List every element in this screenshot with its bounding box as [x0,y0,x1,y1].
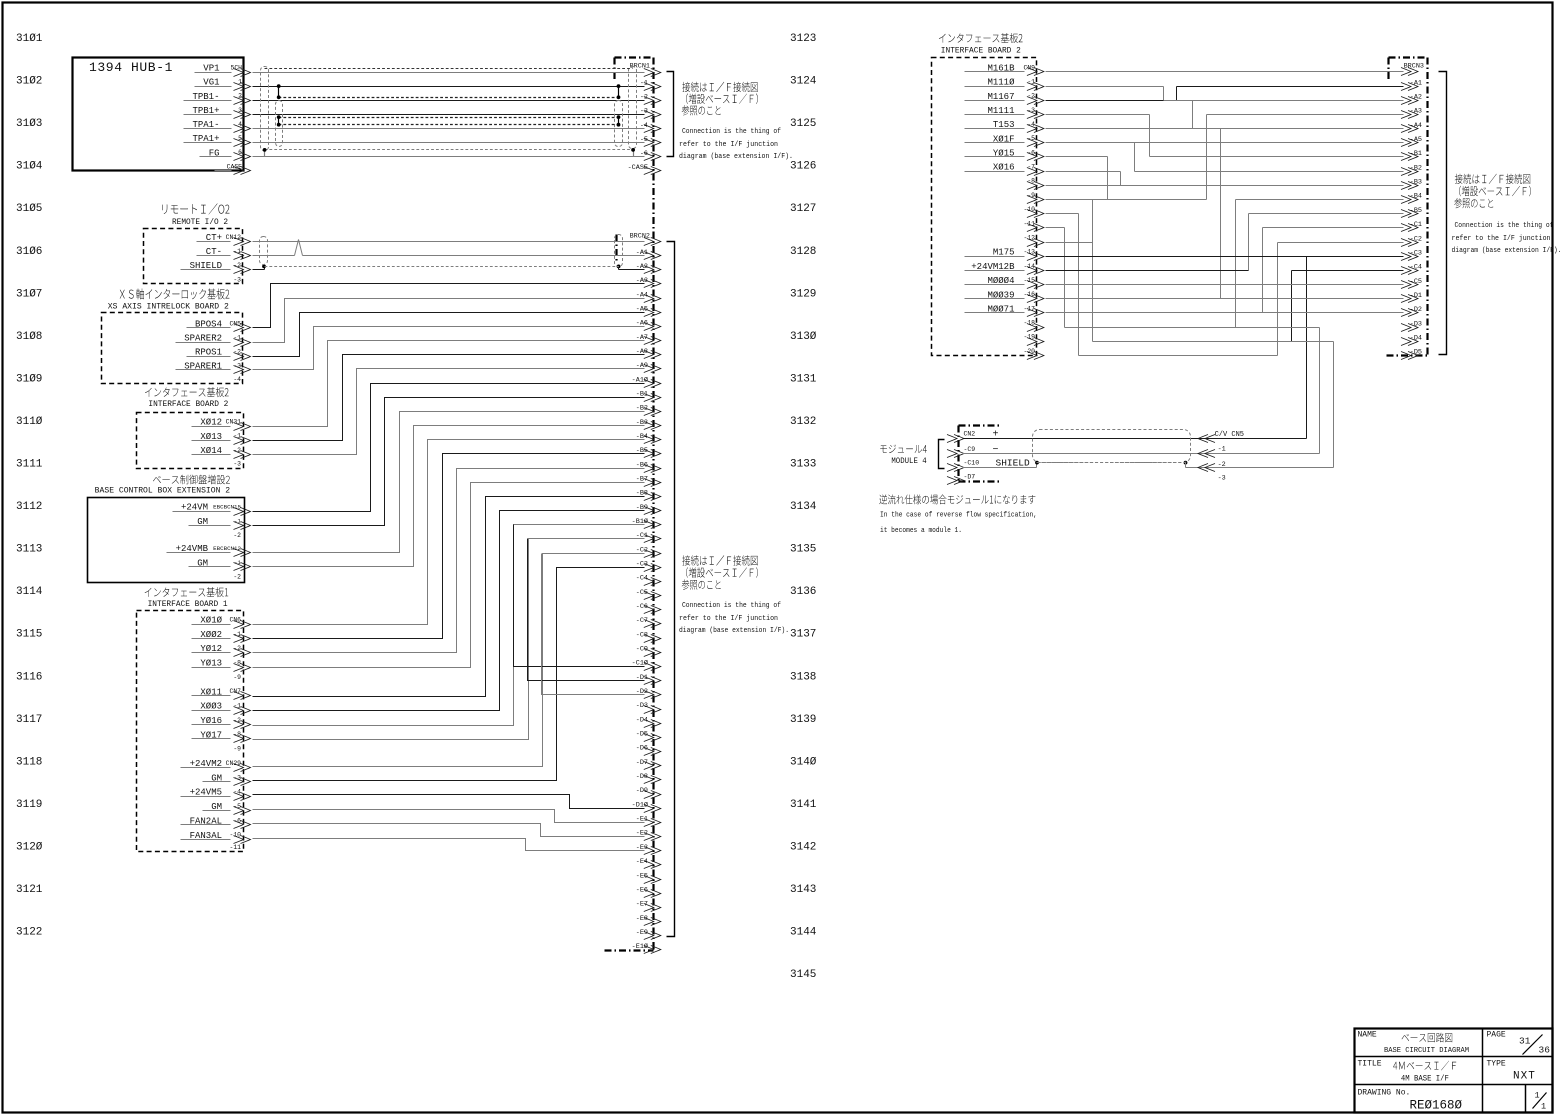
IF1 pin +24VM2 (CN29) [181,759,251,772]
wire X011 to BRCN2 -B8 [253,497,645,697]
crossing wire into -C2 [1278,242,1404,244]
BRCN2 pin -A3 [636,277,661,287]
svg-text:3119: 3119 [16,799,42,811]
IF2R pin M1167 [965,92,1044,105]
BRCN1 pin -6 [640,150,661,160]
wire loop C1-D1 [528,539,645,681]
svg-text:NXT: NXT [1513,1071,1536,1083]
svg-text:Connection is the thing of: Connection is the thing of [682,128,781,136]
svg-text:31Ø9: 31Ø9 [16,373,42,385]
BRCN3 pin -A2 [1401,93,1422,104]
wire SHIELD to BRCN2-A2 [253,265,645,270]
crossing wire +24VM12B stub [1046,270,1249,272]
wire X013 to BRCN2 -A8 [253,355,645,441]
svg-text:3141: 3141 [790,799,817,811]
IF2 pin X014 [192,446,251,459]
cable shield capsule left [261,67,269,151]
BRCN2 pin -E1 [636,816,661,827]
svg-text:312Ø: 312Ø [16,841,43,853]
BRCN2 pin -A10 [632,375,661,387]
shield wire FG pair [263,148,635,157]
title block outer [1355,1029,1553,1113]
svg-text:TITLE: TITLE [1358,1060,1382,1069]
IF1 pin Y013 (-8) [192,659,251,672]
cable shield capsule left 2 [276,101,283,147]
BRCN2 pin -B9 [636,504,661,515]
BCB pin GM (-1) [189,558,251,570]
wire +24VM2 to BRCN2 -C2 [253,554,645,767]
svg-text:-D8: -D8 [636,773,648,781]
svg-text:3134: 3134 [790,501,817,513]
BRCN3 pin -C2 [1401,235,1422,246]
svg-text:-D3: -D3 [1410,320,1422,328]
crossing vertical x1207 [1206,115,1208,200]
svg-text:-11: -11 [229,844,241,851]
svg-text:313Ø: 313Ø [790,331,817,343]
BRCN2 pin -C1 [636,532,661,542]
XS pin BPOS4 [187,319,251,331]
BRCN2 pin -C5 [636,589,661,600]
svg-text:-CASE: -CASE [628,164,648,172]
crossing wire Y015 stub [1046,156,1108,158]
crossing wire into -A3 [1207,114,1404,116]
svg-text:SHIELD: SHIELD [996,458,1031,469]
title jp title [1393,1061,1456,1071]
IF1 pin GM (-5) [203,802,251,814]
svg-text:-C2: -C2 [1410,235,1422,243]
BRCN1 pin top [644,69,661,77]
bcb2 jp title [153,475,230,485]
remote io2 jp title [162,203,229,214]
svg-text:-B1: -B1 [1410,150,1422,158]
BRCN2 pin -E5 [636,872,661,883]
svg-text:3133: 3133 [790,459,816,471]
BRCN2 pin -A7 [636,334,661,345]
svg-text:-C3: -C3 [1410,249,1422,257]
CN5 pin -3 [1198,464,1226,483]
svg-text:CN2: CN2 [964,431,976,438]
BRCN2 bracket [667,242,675,937]
BRCN2 pin -B8 [636,490,661,501]
BRCN3 pin -B5 [1401,207,1422,218]
title page numbers [1519,1035,1550,1056]
crossing wire M161B straight [1046,71,1404,73]
svg-text:3114: 3114 [16,586,43,598]
BRCN2 pin -A2 [636,263,661,274]
crossing wire pin11 stub [1046,227,1065,229]
IF2R pin -9 [1027,192,1044,204]
BRCN3 pin -D5 [1401,349,1422,360]
svg-text:-E4: -E4 [636,858,648,866]
crossing wire pin12 stub [1046,242,1093,244]
HUB pin VP1 (5CH) [195,64,251,77]
svg-text:3125: 3125 [790,118,816,130]
svg-text:314Ø: 314Ø [790,756,817,768]
wire +24VMB to BRCN2 -B2 [253,412,645,553]
HUB pin TPA1- (4) [184,120,251,132]
crossing wire into -C1 [1263,227,1404,229]
HUB pin FG (6) [200,148,251,160]
BRCN3 pin -B3 [1401,179,1422,190]
svg-text:−: − [993,445,999,456]
BRCN3 pin -A4 [1401,122,1422,133]
svg-text:36: 36 [1539,1045,1551,1056]
BRCN2 pin -C7 [636,617,661,627]
svg-text:3137: 3137 [790,629,816,641]
IF2R pin -19 [1023,334,1043,346]
BRCN3 pin top [1401,68,1418,76]
MODULE4 pin CN2 [947,430,999,443]
svg-text:EBCBCN15: EBCBCN15 [213,504,241,511]
svg-text:-D7: -D7 [964,473,976,480]
svg-text:3139: 3139 [790,714,816,726]
wire module4 shield to CN5-3 [963,461,1334,468]
wire module4 + to CN5-1 [963,438,1307,440]
IF1 pin Y017 (-8) [192,730,251,742]
crossing vertical x1277 [1277,243,1279,356]
svg-text:Connection is the thing of: Connection is the thing of [1455,222,1554,230]
svg-text:-E1Ø: -E1Ø [632,942,648,951]
svg-text:3111: 3111 [16,459,43,471]
crossing wire pin8 straight to -B3 [1046,185,1404,187]
svg-text:refer to the I/F junction: refer to the I/F junction [679,141,778,149]
IF2R pin M175 [965,248,1044,261]
wire FAN2AL to BRCN2-E2 [253,824,645,837]
BRCN3 pin -D3 [1401,320,1422,331]
crossing vertical x1248 [1248,214,1250,271]
svg-text:-D9: -D9 [636,787,648,795]
crossing vertical x1262 [1262,228,1264,313]
IF1 pin +24VM5 (-4) [181,788,251,801]
wire X010 to BRCN2 -B4 [253,440,645,625]
wire Y016 to BRCN2 -B10 [253,525,645,726]
note2 jp line1 [682,555,757,565]
IF2R pin T153 [965,120,1044,132]
svg-text:31Ø1: 31Ø1 [16,33,43,45]
svg-text:-3: -3 [233,276,241,283]
HUB pin VG1 (1) [195,78,251,91]
svg-text:-2: -2 [233,532,241,539]
svg-text:-E8: -E8 [636,915,648,923]
crossing wire row20 link [1079,355,1278,357]
BRCN1 dash-dot outline [615,58,654,951]
svg-text:EBCBCN12: EBCBCN12 [213,545,241,552]
BRCN1 pin -5 [640,136,661,147]
crossing wire pin9 stub [1046,199,1207,201]
svg-text:INTERFACE BOARD 1: INTERFACE BOARD 1 [148,600,228,609]
svg-text:3135: 3135 [790,544,816,556]
svg-text:-A2: -A2 [1410,93,1422,101]
bcb2 box [88,498,245,583]
BRCN2 pin -D6 [636,745,661,756]
crossing wire X016 stub [1046,171,1121,173]
svg-text:-D6: -D6 [636,745,648,753]
shield wire pair2 [277,115,621,126]
svg-text:3129: 3129 [790,288,816,300]
crossing wire M0039 straight to -D1 [1046,298,1404,300]
svg-text:-2: -2 [233,573,241,580]
svg-text:-2: -2 [1218,461,1226,469]
title sheet 1/1 [1533,1091,1547,1112]
BRCN2 pin -E3 [636,844,661,855]
BRCN2 pin -A4 [636,291,661,302]
svg-text:-E9: -E9 [636,929,648,937]
svg-text:it becomes a module 1.: it becomes a module 1. [880,527,962,535]
svg-text:3112: 3112 [16,501,42,513]
svg-text:-D5: -D5 [1410,349,1422,357]
svg-text:-B2: -B2 [1410,164,1422,172]
svg-text:3145: 3145 [790,969,816,981]
IF1 pin FAN2AL (-6) [181,816,251,828]
svg-text:-C9: -C9 [964,446,976,453]
HUB pin CASE (CASE) [215,163,251,174]
IF2R pin X01F [965,134,1044,146]
svg-text:-C8: -C8 [636,631,648,639]
crossing vertical x1192 [1192,101,1194,129]
MODULE4 pin -D7 [947,473,975,484]
BRCN1 bracket [667,72,674,157]
remote shield capsule right [615,235,623,267]
svg-text:-3: -3 [1218,475,1226,483]
wire GM-3 to BRCN2 -C3 [253,568,645,781]
wire SPARER2 to BRCN2 -A4 [253,299,645,343]
svg-text:CN6: CN6 [229,616,241,623]
drop wire to CN5-3 [1333,342,1335,468]
wire X012 to BRCN2 -A7 [253,341,645,427]
note3 jp line3 [1454,198,1493,208]
IF1 pin FAN3AL (-10) [181,831,251,844]
title block lines [1355,1029,1553,1113]
svg-text:-3: -3 [233,461,241,468]
svg-text:31Ø3: 31Ø3 [16,118,42,130]
crossing wire M1167 stub [1046,100,1177,102]
svg-text:NAME: NAME [1358,1031,1377,1040]
IF1 pin Y012 (-2) [192,644,251,656]
svg-text:BASE CIRCUIT DIAGRAM: BASE CIRCUIT DIAGRAM [1384,1047,1469,1055]
BCB pin GM (-1) [189,517,251,530]
svg-text:-1: -1 [234,518,241,525]
BRCN2 pin -B4 [636,433,661,444]
crossing vertical x1107 [1107,157,1109,200]
svg-text:Connection is the thing of: Connection is the thing of [682,602,781,610]
BRCN2 pin -C4 [636,575,661,586]
svg-text:3116: 3116 [16,671,42,683]
wire TPA1+ to BRCN1-5 [253,142,645,144]
IF2R pin -8 [1027,178,1044,190]
wire X003 to BRCN2 -B9 [253,511,645,711]
BRCN2 pin -D1 [636,674,661,685]
note1 jp line3 [682,105,721,115]
wire GM to BRCN2 -B1 [253,398,645,526]
if2L box [137,413,244,469]
svg-text:-9: -9 [233,746,241,753]
wire Y017 to BRCN2 -C1 [253,539,645,740]
BRCN2 pin -A1 [636,249,661,260]
BRCN2 pin -A9 [636,362,661,372]
BRCN2 pin -A6 [636,320,661,331]
svg-text:1: 1 [1541,1102,1546,1112]
wire loop C2-D2 [542,554,645,695]
BRCN3 bracket [1439,72,1447,355]
svg-text:3124: 3124 [790,76,817,88]
svg-text:BRCN2: BRCN2 [630,233,650,241]
svg-text:-D4: -D4 [636,716,648,724]
BRCN2 pin -E4 [636,858,661,868]
module4 bracket [939,440,945,469]
svg-text:-D2: -D2 [1410,306,1422,314]
svg-text:XS AXIS INTRELOCK BOARD 2: XS AXIS INTRELOCK BOARD 2 [108,303,229,312]
BRCN3 pin -A3 [1401,108,1422,119]
BRCN3 pin -C5 [1401,278,1422,289]
BRCN3 pin -B2 [1401,164,1422,175]
if2R box [932,58,1037,356]
BRCN1 pin -4 [640,122,661,133]
svg-text:3117: 3117 [16,714,42,726]
svg-text:refer to the I/F junction: refer to the I/F junction [1452,235,1551,243]
svg-text:-C10: -C10 [964,460,980,467]
svg-text:-C4: -C4 [636,575,648,583]
wire FG to BRCN1-6 [253,156,645,158]
BCB -2 labels [233,532,241,581]
IF1 pin X003 (-1) [192,702,251,715]
BRCN2 pin -E2 [636,830,661,841]
REMOTE pin SHIELD [181,261,251,273]
svg-text:-C9: -C9 [636,646,648,654]
wire CT+ to BRCN2 top [253,241,645,243]
MODULE4 pin -C9 [947,445,999,458]
BRCN2 pin -D3 [636,702,661,713]
svg-text:-D7: -D7 [636,759,648,767]
wire +24VM5 to BRCN2-D10 [253,795,645,809]
svg-text:31Ø4: 31Ø4 [16,161,43,173]
svg-text:-4: -4 [233,376,241,383]
IF2R pin M1111 [965,106,1044,119]
note2 jp line2 [686,567,758,578]
BRCN3 pin -C1 [1401,221,1422,231]
IF2R pin +24VM12B [965,262,1044,275]
HUB pin TPB1+ (3) [184,106,251,119]
svg-text:31Ø8: 31Ø8 [16,331,42,343]
crossing wire into -A1 [1177,86,1404,88]
svg-text:-A4: -A4 [1410,122,1422,130]
crossing wire pin10 stub [1046,213,1079,215]
IF1 pin GM (-3) [203,773,251,785]
svg-text:-A3: -A3 [1410,108,1422,116]
svg-text:3142: 3142 [790,841,816,853]
crossing wire M175 straight to -C3 [1046,256,1404,258]
svg-text:-C5: -C5 [1410,278,1422,286]
wire BPOS4 to BRCN2 -A3 [253,284,645,328]
svg-text:-1: -1 [233,703,241,710]
svg-text:3123: 3123 [790,33,816,45]
wire loop B10-C10 [514,525,645,667]
BRCN3 pin -C4 [1401,264,1422,275]
wire GM2 to BRCN2 -B3 [253,426,645,567]
BRCN2 pin -A5 [636,305,661,316]
IF2R pin M1110 [965,78,1044,91]
crossing wire M1111 stub [1046,114,1150,116]
BRCN2 pin -E9 [636,929,661,940]
crossing vertical x1120 [1120,172,1122,186]
svg-text:-B5: -B5 [1410,207,1422,215]
svg-text:311Ø: 311Ø [16,416,43,428]
IF2R pin -11 [1023,220,1043,231]
note1 jp line1 [682,82,757,92]
crossing wire into -B2 [1135,171,1404,173]
svg-text:3128: 3128 [790,246,816,258]
BRCN2 pin -C10 [632,659,661,671]
svg-text:diagram (base extension I/F).: diagram (base extension I/F). [679,627,789,635]
XS pin SPARER1 [176,361,251,373]
crossing vertical x1149 [1149,115,1151,157]
1394 HUB-1 box [73,58,244,171]
crossing wire into -C4 [1292,270,1404,272]
svg-text:refer to the I/F junction: refer to the I/F junction [679,615,778,623]
svg-text:31Ø7: 31Ø7 [16,288,42,300]
BRCN2 pin -E7 [636,901,661,912]
IF2R pin M0004 [965,276,1044,288]
svg-text:4M BASE I/F: 4M BASE I/F [1401,1075,1449,1084]
wire module4 - to CN5-2 [963,453,1320,455]
BRCN2 pin -C2 [636,546,661,557]
svg-text:diagram (base extension I/F).: diagram (base extension I/F). [679,153,793,161]
IF2R pin -20 [1023,348,1043,360]
svg-text:-D5: -D5 [636,731,648,739]
svg-text:DRAWING No.: DRAWING No. [1358,1089,1411,1098]
svg-text:-D3: -D3 [636,702,648,710]
BRCN2 pin -C8 [636,631,661,642]
IF2R pin Y015 [965,148,1044,160]
BRCN3 pin -B1 [1401,150,1422,160]
IF1 unwired pin labels [229,674,241,851]
svg-text:3131: 3131 [790,373,817,385]
svg-text:INTERFACE BOARD 2: INTERFACE BOARD 2 [148,400,228,409]
wire CT- to BRCN2-A1 [253,240,645,256]
svg-text:-13: -13 [1023,249,1035,256]
wire FAN3AL to BRCN2-E3 [253,839,645,851]
if2R jp title [939,33,1023,43]
HUB pin TPB1- (2) [184,92,251,105]
svg-text:3144: 3144 [790,927,817,939]
IF2R pin -12 [1023,234,1043,246]
BRCN3 pin -B4 [1401,193,1422,204]
BRCN2 pin -D7 [636,759,661,770]
IF2R pin M0039 [965,290,1044,302]
wire VP1 to BRCN1 [253,72,645,74]
svg-text:In the case of reverse flow sp: In the case of reverse flow specificatio… [880,512,1037,520]
wire GM-5 to BRCN2-E1 [253,810,645,823]
wire X014 to BRCN2 -A9 [253,369,645,455]
IF1 pin X011 (CN7) [192,687,251,699]
svg-text:31: 31 [1519,1036,1531,1047]
HUB pin TPA1+ (5) [184,134,251,146]
BRCN2 pin -B5 [636,447,661,457]
note1 jp line2 [686,93,758,104]
svg-text:-C1: -C1 [1410,221,1422,229]
if1 jp title [145,587,229,597]
title jp name [1402,1033,1453,1043]
svg-text:3126: 3126 [790,161,816,173]
svg-text:diagram (base extension I/F).: diagram (base extension I/F). [1452,247,1562,255]
svg-text:-12: -12 [1023,234,1035,241]
BRCN2 pin -C6 [636,603,661,613]
crossing vertical x1176 [1176,87,1178,101]
crossing vertical x1134 [1134,143,1136,172]
drop wire to CN5-1 [1306,257,1308,439]
crossing wire M1110 stub [1046,86,1164,88]
module4 shield capsule [1033,430,1191,463]
svg-text:-18: -18 [1023,320,1035,327]
